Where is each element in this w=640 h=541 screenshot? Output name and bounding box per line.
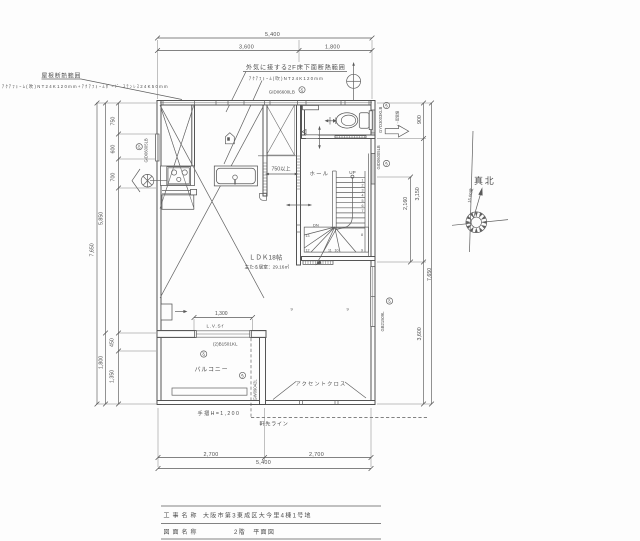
svg-text:2: 2: [362, 184, 364, 188]
wall shear box west: [263, 105, 267, 196]
svg-text:2,700: 2,700: [204, 452, 219, 458]
svg-text:5: 5: [362, 199, 364, 203]
svg-text:11: 11: [328, 249, 332, 253]
svg-text:600: 600: [111, 145, 117, 154]
svg-text:1,800: 1,800: [325, 45, 340, 51]
wall toilet left: [302, 105, 305, 139]
dim line 2700 2700: [156, 452, 374, 460]
cooktop: [167, 167, 191, 185]
svg-text:6: 6: [362, 204, 364, 208]
window mullion ticks top wall: [163, 101, 369, 106]
compass axis line: [470, 131, 474, 252]
toilet door swing arrow: [302, 126, 321, 149]
balcony fixture arrow: [175, 310, 187, 313]
kitchen cabinet: [162, 195, 194, 209]
dim line 5400 top: [155, 32, 374, 40]
svg-text:7: 7: [362, 209, 364, 213]
window balcony sliding door: [157, 331, 266, 338]
svg-text:2,700: 2,700: [309, 452, 324, 458]
accent cloth leader left: [273, 382, 296, 400]
svg-text:2階 平面図: 2階 平面図: [234, 528, 275, 536]
island counter: [214, 166, 257, 186]
wall bottom exterior: [157, 401, 375, 405]
svg-text:外気に接する2F床下面断熱範囲: 外気に接する2F床下面断熱範囲: [246, 64, 346, 72]
svg-text:3,600: 3,600: [239, 45, 254, 51]
balcony hatch fixture: [161, 304, 172, 320]
range hood duct line: [150, 180, 167, 182]
hall wall joint ticks: [297, 156, 301, 189]
svg-text:3,600: 3,600: [417, 327, 423, 340]
svg-text:5,400: 5,400: [256, 460, 271, 466]
svg-text:ろ: ろ: [240, 372, 244, 378]
svg-text:ろ: ろ: [137, 143, 141, 149]
compass tilted cross line: [452, 220, 508, 226]
svg-text:1: 1: [362, 179, 364, 183]
title line 3: [161, 538, 381, 540]
wall hall west: [297, 105, 301, 265]
compass rose: [466, 212, 487, 233]
north arrow: [474, 187, 483, 218]
svg-text:3: 3: [362, 189, 364, 193]
hall door arrow: [286, 204, 312, 207]
wall left exterior: [157, 101, 161, 405]
svg-text:5,400: 5,400: [265, 32, 280, 38]
svg-text:軒先ライン: 軒先ライン: [260, 420, 289, 428]
mark circle D: [383, 160, 389, 166]
stair step numbers: [306, 179, 364, 253]
pocket door hatch: [264, 163, 267, 193]
svg-text:ｱｸｱﾌｫｰﾑ(吹)NT24K120mm: ｱｸｱﾌｫｰﾑ(吹)NT24K120mm: [249, 75, 324, 82]
insulation zone X kitchen: [160, 105, 194, 209]
dim line 3600 1800 top: [155, 45, 374, 53]
svg-text:5,850: 5,850: [99, 212, 105, 225]
counter foot at wall: [260, 194, 267, 201]
kitchen counter: [161, 166, 195, 186]
svg-text:UP: UP: [349, 170, 355, 175]
dropped wall line: [258, 155, 297, 157]
mark circle C: [383, 102, 389, 109]
svg-text:3,150: 3,150: [415, 187, 421, 200]
svg-text:真北: 真北: [474, 175, 496, 186]
eaves line dashed vertical: [250, 338, 252, 418]
dim line right outer: [429, 101, 434, 407]
svg-text:アクセントクロス: アクセントクロス: [296, 381, 347, 388]
toilet water tap symbol: [325, 117, 337, 125]
svg-text:GW09042L: GW09042L: [253, 379, 258, 401]
fire alarm pentagon: [225, 133, 234, 144]
svg-text:主たる居室：29.16㎡: 主たる居室：29.16㎡: [245, 264, 290, 271]
exhaust chevron arrow: [132, 169, 140, 192]
svg-text:1,350: 1,350: [110, 370, 116, 383]
stair treads: [336, 154, 368, 257]
svg-text:2,160: 2,160: [403, 197, 409, 210]
wall right exterior: [371, 101, 375, 405]
svg-text:GB21509L: GB21509L: [380, 311, 385, 332]
toilet bowl: [336, 113, 358, 128]
toilet shelf: [303, 105, 319, 109]
svg-text:大阪市第3東成区大今里4棟1号地: 大阪市第3東成区大今里4棟1号地: [203, 512, 312, 520]
mark circle E: [386, 298, 392, 305]
shear wall box X: [267, 105, 295, 155]
svg-text:9: 9: [361, 249, 363, 253]
svg-text:8: 8: [361, 233, 363, 237]
wall kitchen east: [192, 105, 195, 166]
mark circle G: [239, 372, 245, 379]
window right wall hall GID06005LB: [371, 154, 375, 185]
extension lines bottom: [158, 408, 371, 467]
wall toilet bottom: [302, 135, 376, 139]
svg-text:10: 10: [335, 249, 339, 253]
eaves line dashed horizontal: [251, 417, 428, 419]
svg-text:ろ: ろ: [387, 298, 391, 304]
mark circle B: [299, 86, 305, 93]
vent strip toilet wall: [335, 136, 366, 138]
svg-text:7,650: 7,650: [90, 243, 96, 256]
svg-text:700: 700: [111, 173, 117, 182]
bottom wall ticks: [300, 401, 339, 405]
svg-text:バルコニー: バルコニー: [195, 367, 229, 374]
svg-text:ろ: ろ: [384, 160, 388, 166]
svg-text:GID06005LB: GID06005LB: [376, 145, 381, 169]
svg-text:GID06600LB: GID06600LB: [269, 90, 295, 95]
stair winder box: [304, 227, 368, 252]
balcony planter rail: [172, 388, 247, 395]
leader aqua foam to LDK: [224, 81, 262, 165]
title line 1: [161, 505, 381, 507]
svg-text:ろ: ろ: [202, 351, 206, 357]
svg-text:750: 750: [111, 117, 117, 126]
leader roof insulation to plan: [81, 79, 182, 100]
kitchen counter shelf bars: [162, 191, 197, 194]
window right wall toilet GYD3003KLB: [371, 110, 375, 133]
svg-text:4: 4: [362, 194, 364, 198]
extension lines right: [377, 103, 432, 404]
insulation X overdraw kitchen: [160, 105, 264, 298]
leader 2F floor insulation to wall: [226, 72, 246, 113]
extension lines top: [158, 40, 373, 99]
dim line left detail: [116, 101, 121, 407]
svg-text:ｨ→配管懐: ｨ→配管懐: [395, 110, 400, 126]
wall below stair: [302, 257, 376, 261]
svg-text:ｱｸｱﾌｫｰﾑ(吹)NT24K120mm+ｱｸｱﾌｫｰﾑﾎﾞ: ｱｸｱﾌｫｰﾑ(吹)NT24K120mm+ｱｸｱﾌｫｰﾑﾎﾞｰﾄﾞ ｽﾃﾝﾚｽ2…: [2, 83, 169, 90]
svg-text:屋根断熱範囲: 屋根断熱範囲: [42, 72, 82, 80]
window glazing line top wall: [160, 102, 372, 104]
stair walk line: [315, 175, 354, 265]
svg-text:DN: DN: [313, 223, 319, 228]
dim line 5400 bottom: [156, 460, 374, 471]
svg-text:ろ: ろ: [300, 86, 304, 92]
leader 2F floor insulation underline: [243, 71, 347, 73]
window sash tick: [371, 296, 375, 298]
svg-text:ホール: ホール: [310, 171, 330, 178]
mark circle A: [136, 143, 142, 149]
leader roof insulation note: [42, 78, 82, 80]
hatch under stair storage: [303, 261, 333, 265]
dim 1300 balcony: [192, 311, 255, 330]
block arrow vent: [385, 125, 409, 137]
range hood fan symbol: [141, 174, 154, 187]
dim line left outer: [95, 101, 100, 407]
wall balcony south of LDK left block: [157, 331, 196, 338]
svg-text:1,300: 1,300: [215, 311, 228, 317]
stair stringer: [333, 171, 337, 229]
svg-text:13: 13: [306, 234, 310, 238]
svg-text:1,800: 1,800: [99, 356, 105, 369]
svg-text:15.00度: 15.00度: [466, 187, 476, 203]
svg-text:工事名称: 工事名称: [164, 512, 200, 520]
kitchen sink: [217, 168, 256, 184]
wall balcony partition: [260, 331, 266, 405]
insulation zone X LDK giant: [160, 105, 264, 298]
svg-text:図面名称: 図面名称: [164, 528, 200, 536]
toilet tank: [359, 113, 369, 129]
dim 750min arrow: [265, 173, 299, 176]
extension lines left: [96, 103, 156, 404]
window right wall GB21509L: [371, 267, 375, 327]
window left wall GID06005LB: [156, 134, 159, 161]
dim line right inner: [408, 175, 413, 265]
stair winder fan: [304, 227, 356, 252]
dim line left middle: [103, 101, 108, 407]
faucet: [233, 175, 238, 185]
svg-text:750以上: 750以上: [272, 165, 291, 173]
wall top exterior: [157, 101, 375, 106]
svg-text:GYD3003KLB: GYD3003KLB: [378, 106, 383, 133]
svg-text:ＬＤＫ18帖: ＬＤＫ18帖: [249, 253, 283, 262]
toilet wall panel: [369, 111, 372, 130]
wall balcony south of LDK right block: [251, 331, 266, 338]
svg-text:手摺H=1,200: 手摺H=1,200: [198, 409, 241, 417]
dim line right middle: [421, 101, 426, 407]
accent cloth leader right: [345, 382, 366, 398]
svg-text:9: 9: [291, 307, 294, 312]
svg-text:7,650: 7,650: [427, 268, 433, 281]
svg-text:450: 450: [110, 338, 116, 347]
svg-text:9: 9: [347, 307, 350, 312]
svg-text:L.V.Sｲ: L.V.Sｲ: [207, 324, 225, 329]
svg-text:12: 12: [306, 249, 310, 253]
svg-text:(2)B1501KL: (2)B1501KL: [213, 342, 238, 347]
svg-text:900: 900: [417, 115, 423, 124]
title line 2: [161, 523, 381, 525]
mark circle F: [201, 351, 207, 358]
flue symbol circle: [347, 62, 361, 101]
kitchen small box: [191, 189, 197, 195]
